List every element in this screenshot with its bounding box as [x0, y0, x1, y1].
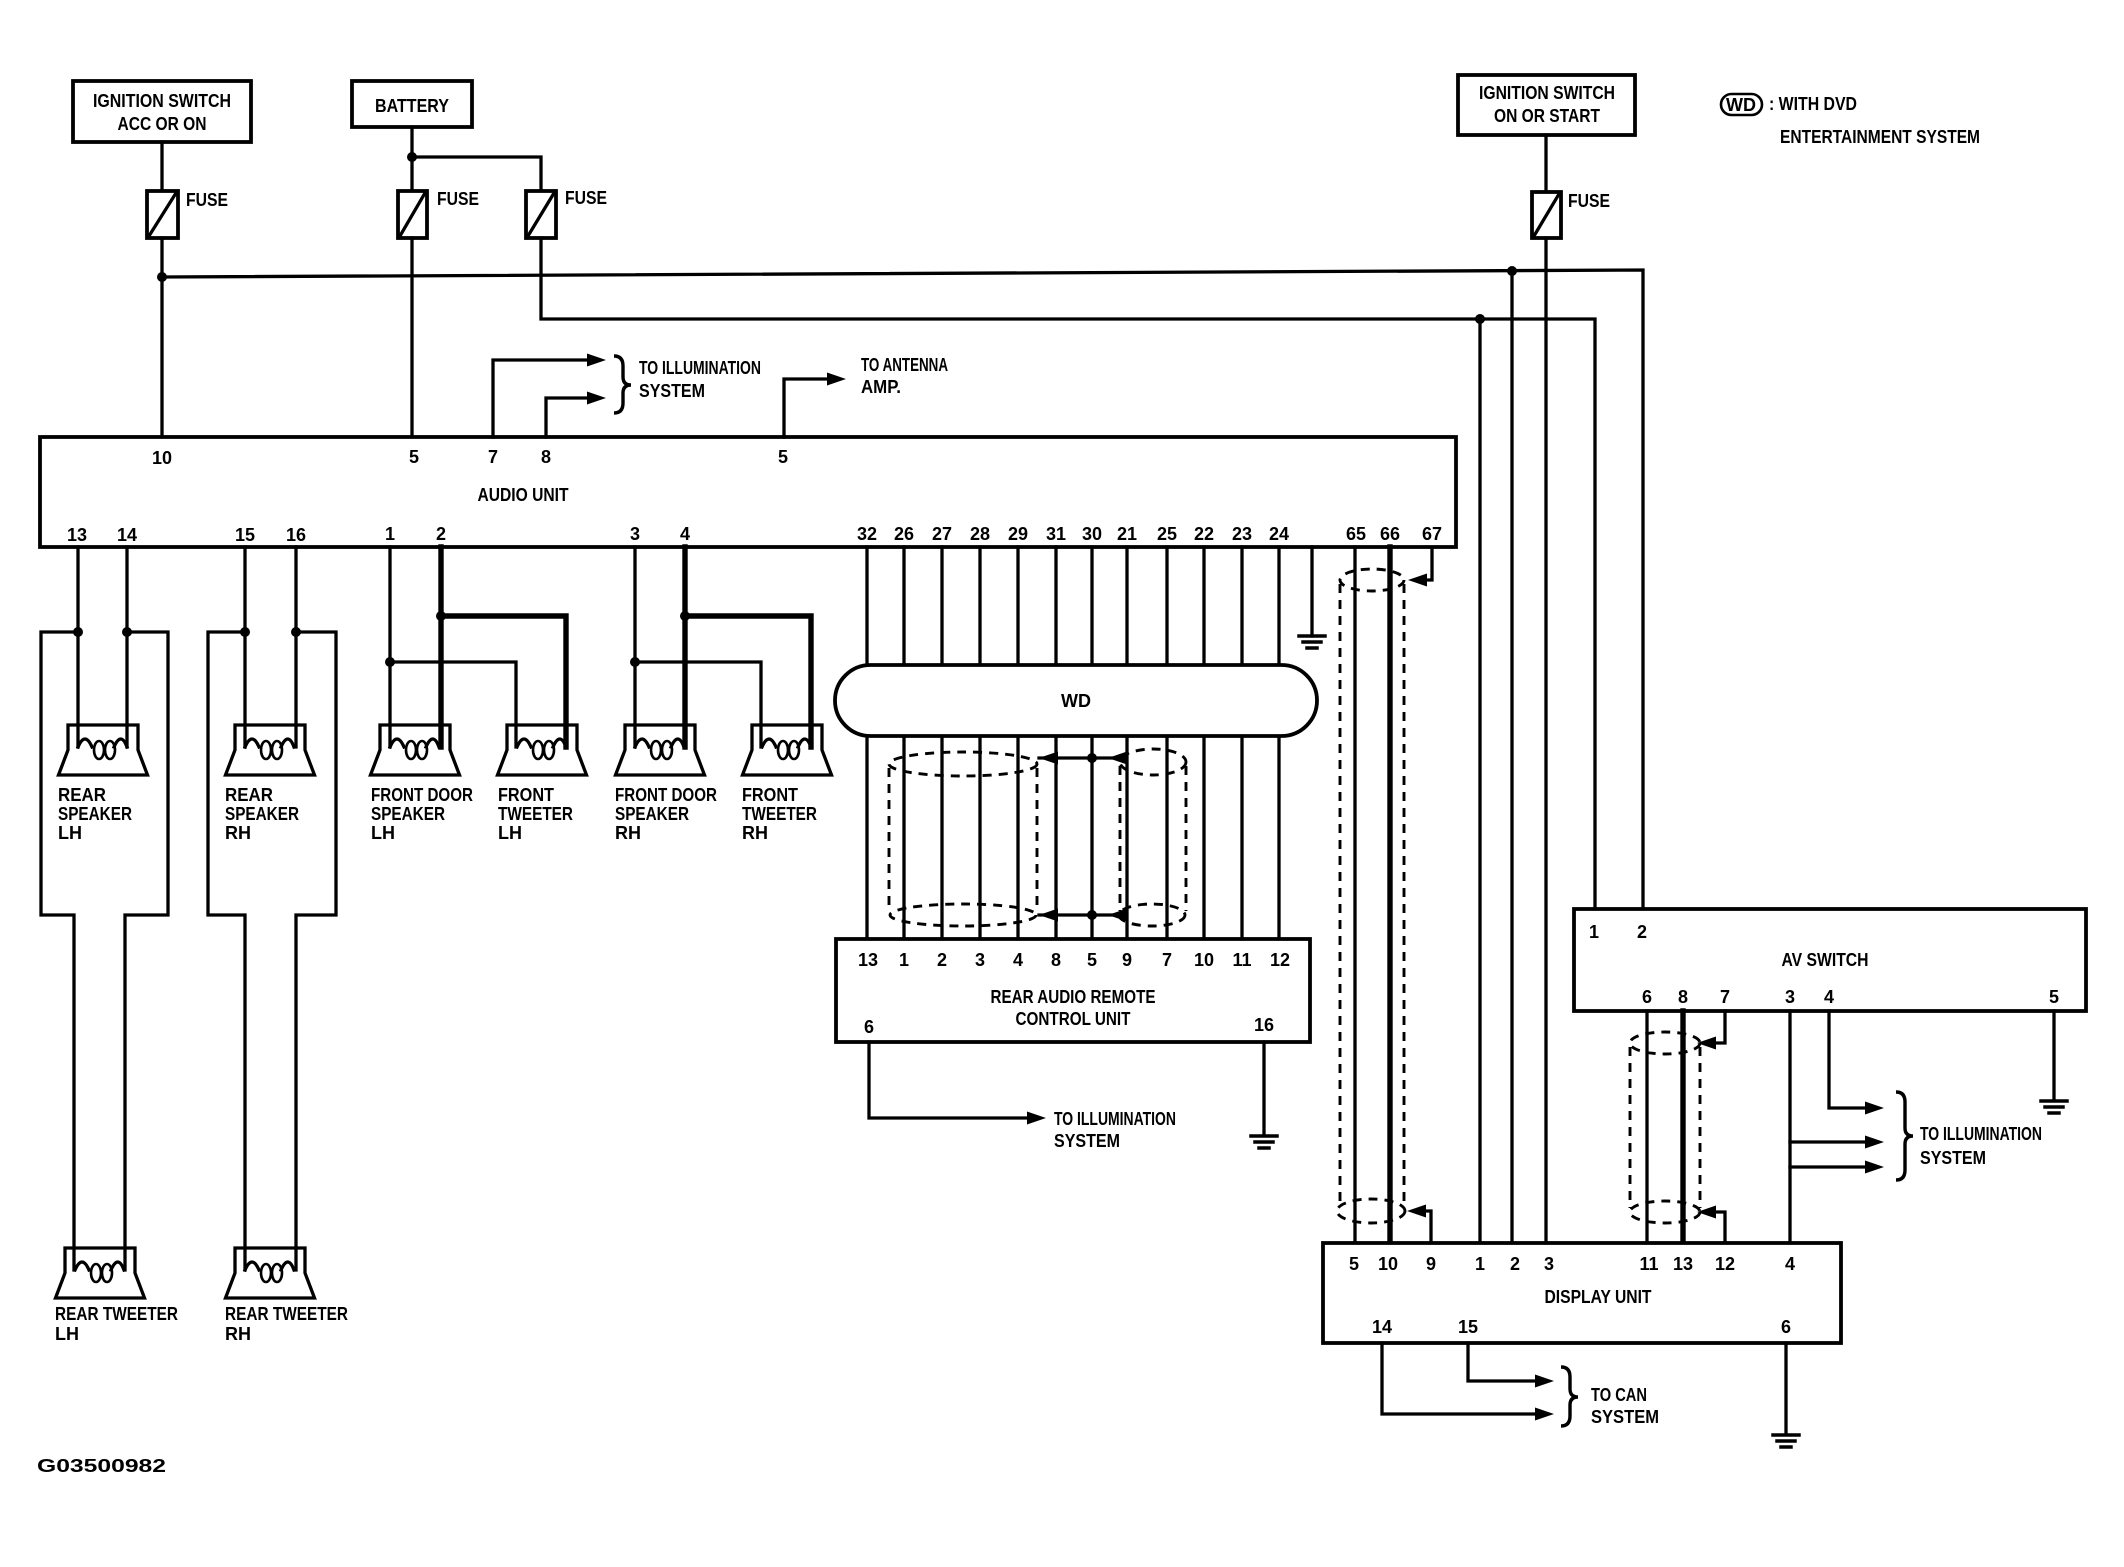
svg-text:5: 5 — [778, 447, 788, 467]
svg-text:FUSE: FUSE — [186, 190, 228, 210]
rear audio remote control unit box — [836, 939, 1310, 1042]
shield: AV cable top ellipse — [1630, 1032, 1700, 1054]
svg-text:3: 3 — [1785, 987, 1795, 1007]
pin labels: audio unit bottom right row — [857, 524, 1442, 544]
svg-text:14: 14 — [1372, 1317, 1392, 1337]
wire: audio pin 3 to front door speaker RH — [633, 547, 636, 747]
pin labels: audio unit top row — [152, 447, 788, 468]
svg-text:12: 12 — [1715, 1254, 1735, 1274]
svg-text:31: 31 — [1046, 524, 1066, 544]
node: ACC bus drop junction — [1507, 266, 1517, 276]
svg-text:AV SWITCH: AV SWITCH — [1782, 950, 1869, 970]
svg-text:4: 4 — [1013, 950, 1023, 970]
svg-text:13: 13 — [858, 950, 878, 970]
wire: audio pin 28 to remote pin 3 — [978, 547, 981, 939]
svg-text:SYSTEM: SYSTEM — [639, 381, 705, 401]
wire: fuse F2 to audio unit pin 5 — [410, 238, 413, 437]
svg-text:6: 6 — [1781, 1317, 1791, 1337]
svg-text:65: 65 — [1346, 524, 1366, 544]
arrow: drain to left shield (bottom) — [1039, 909, 1058, 922]
WD legend: WITH DVD ENTERTAINMENT SYSTEM — [1721, 94, 1980, 147]
svg-text:10: 10 — [152, 448, 172, 468]
fuse F3 — [526, 188, 607, 238]
pin labels: remote control unit bottom row — [864, 1015, 1274, 1037]
svg-text:29: 29 — [1008, 524, 1028, 544]
label: TO ILLUMINATION SYSTEM (top) — [639, 358, 761, 401]
label: REAR SPEAKER LH — [58, 785, 132, 843]
svg-text:4: 4 — [1824, 987, 1834, 1007]
svg-text:8: 8 — [1678, 987, 1688, 1007]
wire: audio pin 32 to remote pin 13 — [865, 547, 868, 939]
arrow: display pin 9 drain to shield — [1407, 1205, 1426, 1218]
shield: right cable side walls — [1340, 584, 1404, 1207]
svg-text:LH: LH — [498, 823, 522, 843]
svg-text:FRONT DOOR: FRONT DOOR — [615, 785, 717, 805]
svg-text:2: 2 — [436, 524, 446, 544]
node: drain top junction — [1087, 753, 1097, 763]
svg-text:CONTROL UNIT: CONTROL UNIT — [1016, 1009, 1131, 1029]
shield: middle cable (pins 21,25) top ellipse — [1120, 749, 1186, 775]
label: REAR SPEAKER RH — [225, 785, 299, 843]
wire: branch to rear tweeter LH (-) — [125, 632, 168, 1270]
node: pin 14 branch — [122, 627, 132, 637]
WD option oval — [835, 665, 1317, 736]
AV switch box — [1574, 909, 2086, 1011]
svg-text:32: 32 — [857, 524, 877, 544]
svg-text:TO ANTENNA: TO ANTENNA — [861, 355, 948, 375]
svg-text:REAR TWEETER: REAR TWEETER — [55, 1304, 178, 1324]
shield: middle cable bottom ellipse — [1119, 904, 1185, 926]
speaker: REAR SPEAKER LH — [59, 725, 148, 775]
ground: remote control unit — [1251, 1136, 1277, 1148]
wire: display pin 6 to ground — [1784, 1343, 1787, 1434]
svg-text:10: 10 — [1378, 1254, 1398, 1274]
wire: display pin 15 to CAN system — [1468, 1343, 1538, 1381]
arrow: AV illumination bottom — [1865, 1161, 1884, 1174]
shield: left cable (pins 32-31) top ellipse — [889, 752, 1037, 776]
svg-text:12: 12 — [1270, 950, 1290, 970]
wire: audio pin 13 to rear speaker LH — [76, 547, 79, 747]
pin labels: remote control unit top row — [858, 950, 1290, 970]
svg-text:11: 11 — [1232, 950, 1251, 970]
wire: fuse F1 to audio unit pin 10 — [160, 238, 163, 437]
svg-text:SPEAKER: SPEAKER — [615, 804, 689, 824]
battery box — [352, 81, 472, 127]
fuse F1 — [147, 190, 228, 238]
svg-text:SPEAKER: SPEAKER — [371, 804, 445, 824]
wire: audio pin 5 to antenna amp — [784, 379, 830, 437]
svg-text:3: 3 — [1544, 1254, 1554, 1274]
svg-text:FRONT DOOR: FRONT DOOR — [371, 785, 473, 805]
wire: branch to front tweeter RH (+) — [635, 662, 761, 747]
svg-text:AMP.: AMP. — [861, 377, 901, 397]
wire: display pin 12 to AV shield drain — [1713, 1212, 1725, 1243]
svg-text:SPEAKER: SPEAKER — [58, 804, 132, 824]
svg-text:REAR: REAR — [225, 785, 273, 805]
wire: remote pin 16 to ground — [1262, 1042, 1265, 1135]
svg-text:REAR TWEETER: REAR TWEETER — [225, 1304, 348, 1324]
svg-text:TO ILLUMINATION: TO ILLUMINATION — [639, 358, 761, 378]
svg-text:28: 28 — [970, 524, 990, 544]
wire: AV pin 3 tee to illumination (middle) — [1790, 1140, 1868, 1143]
label: TO ILLUMINATION SYSTEM (AV) — [1920, 1124, 2042, 1168]
svg-text:RH: RH — [225, 823, 251, 843]
label: FRONT TWEETER RH — [742, 785, 817, 843]
arrow: drain to middle shield (bottom) — [1108, 909, 1127, 922]
svg-text:ACC OR ON: ACC OR ON — [118, 114, 207, 134]
svg-text:DISPLAY UNIT: DISPLAY UNIT — [1545, 1287, 1652, 1307]
wire: battery to fuse F2 — [410, 127, 413, 191]
pin labels: AV switch bottom row — [1642, 987, 2059, 1007]
wire: AV pin 6 to display pin 11 — [1645, 1011, 1648, 1243]
brace: to CAN system — [1561, 1367, 1578, 1426]
svg-text:REAR AUDIO REMOTE: REAR AUDIO REMOTE — [991, 987, 1156, 1007]
arrow: display pin 12 drain to shield — [1697, 1206, 1716, 1219]
svg-text:4: 4 — [1785, 1254, 1795, 1274]
wire: branch to front tweeter LH (-) thick — [441, 616, 566, 747]
svg-text:TWEETER: TWEETER — [498, 804, 573, 824]
svg-text:REAR: REAR — [58, 785, 106, 805]
wire: ignition ON/START to fuse F4 — [1544, 135, 1547, 192]
wire: ACC bus drop to display unit pin 2 — [1510, 271, 1513, 1243]
svg-text:21: 21 — [1117, 524, 1137, 544]
svg-text:2: 2 — [1637, 922, 1647, 942]
svg-text:3: 3 — [975, 950, 985, 970]
svg-text:: WITH DVD: : WITH DVD — [1769, 94, 1857, 114]
shield: middle cable side walls — [1120, 766, 1186, 911]
svg-text:7: 7 — [488, 447, 498, 467]
node: battery junction — [407, 152, 417, 162]
arrow: CAN bottom — [1535, 1408, 1554, 1421]
shield: AV cable bottom ellipse — [1630, 1201, 1700, 1223]
audio unit box — [40, 437, 1456, 547]
wire: battery branch to fuse F3 — [412, 157, 541, 191]
label: TO ANTENNA AMP. — [861, 355, 948, 397]
svg-text:LH: LH — [58, 823, 82, 843]
svg-text:1: 1 — [899, 950, 909, 970]
svg-text:WD: WD — [1726, 95, 1756, 115]
svg-text:22: 22 — [1194, 524, 1214, 544]
svg-text:8: 8 — [541, 447, 551, 467]
node: pin 13 branch — [73, 627, 83, 637]
arrow: CAN top — [1535, 1375, 1554, 1388]
svg-text:1: 1 — [1475, 1254, 1485, 1274]
arrow: AV illumination top — [1865, 1102, 1884, 1115]
svg-text:SYSTEM: SYSTEM — [1591, 1407, 1659, 1427]
svg-text:13: 13 — [67, 525, 87, 545]
pin labels: display unit top row — [1349, 1254, 1795, 1274]
wire: audio pin 67 to right shield drain — [1424, 548, 1432, 580]
svg-text:IGNITION SWITCH: IGNITION SWITCH — [1479, 83, 1615, 103]
node: ACC bus junction — [157, 272, 167, 282]
ground: display unit — [1773, 1435, 1799, 1447]
wire: audio pin 1 to front door speaker LH — [388, 547, 391, 747]
label: REAR TWEETER LH — [55, 1304, 178, 1344]
label: REAR TWEETER RH — [225, 1304, 348, 1344]
arrow: remote illumination — [1027, 1112, 1046, 1125]
wire: ACC bus to AV switch pin 2 — [162, 270, 1643, 909]
svg-text:2: 2 — [937, 950, 947, 970]
wire: audio pin 26 to remote pin 1 — [902, 547, 905, 939]
svg-text:ENTERTAINMENT SYSTEM: ENTERTAINMENT SYSTEM — [1780, 127, 1980, 147]
wire: AV pin 8 to display pin 13 (thick) — [1680, 1011, 1685, 1243]
arrow: drain to middle shield (top) — [1108, 752, 1127, 765]
svg-text:1: 1 — [385, 524, 395, 544]
node: pin 15 branch — [240, 627, 250, 637]
svg-text:66: 66 — [1380, 524, 1400, 544]
pin labels: display unit bottom row — [1372, 1317, 1791, 1337]
speaker: FRONT DOOR SPEAKER LH — [371, 725, 460, 775]
wire: fuse F4 to display unit pin 3 — [1544, 238, 1547, 1243]
wire: audio pin 23 to remote pin 11 — [1240, 547, 1243, 939]
arrow: drain to left shield (top) — [1039, 752, 1058, 765]
arrow: AV illumination middle — [1865, 1136, 1884, 1149]
speaker: FRONT TWEETER RH — [743, 725, 832, 775]
wire: display pin 14 to CAN system — [1382, 1343, 1538, 1414]
node: drain bottom junction — [1087, 910, 1097, 920]
node: pin 3 branch — [630, 657, 640, 667]
brace: to illumination system (AV) — [1896, 1092, 1913, 1180]
svg-text:9: 9 — [1426, 1254, 1436, 1274]
svg-text:FRONT: FRONT — [498, 785, 554, 805]
speaker: FRONT DOOR SPEAKER RH — [616, 725, 705, 775]
wire: ACC switch to fuse F1 — [160, 142, 163, 191]
wire: audio pin 14 to rear speaker LH — [125, 547, 128, 747]
svg-text:26: 26 — [894, 524, 914, 544]
wire: branch to rear tweeter LH (+) — [41, 632, 78, 1270]
svg-text:25: 25 — [1157, 524, 1177, 544]
svg-text:30: 30 — [1082, 524, 1102, 544]
speaker: REAR SPEAKER RH — [226, 725, 315, 775]
svg-text:23: 23 — [1232, 524, 1252, 544]
wire: audio unit case ground — [1310, 547, 1313, 636]
svg-text:TO CAN: TO CAN — [1591, 1385, 1647, 1405]
svg-text:5: 5 — [2049, 987, 2059, 1007]
wire: audio pin 66 to display pin 10 (thick) — [1387, 547, 1392, 1243]
wire: audio pin 4 to front door speaker RH (thick) — [682, 547, 687, 747]
svg-text:WD: WD — [1061, 691, 1091, 711]
wire: audio pin 25 to remote pin 7 — [1165, 547, 1168, 939]
wire: audio pin 29 to remote pin 4 — [1016, 547, 1019, 939]
wire: +B bus from fuse F3 to AV switch pin 1 — [541, 238, 1595, 909]
svg-text:8: 8 — [1051, 950, 1061, 970]
svg-text:7: 7 — [1162, 950, 1172, 970]
node: pin 1 branch — [385, 657, 395, 667]
label: TO ILLUMINATION SYSTEM (remote) — [1054, 1109, 1176, 1151]
svg-text:LH: LH — [55, 1324, 79, 1344]
wire: audio pin 65 to display pin 5 — [1353, 547, 1356, 1243]
svg-text:ON OR START: ON OR START — [1494, 106, 1600, 126]
speaker: REAR TWEETER RH — [226, 1248, 315, 1298]
wire: branch to rear tweeter RH (-) — [296, 632, 336, 1270]
wire: audio pin 8 to illumination system — [546, 398, 590, 437]
wire: AV pin 3 to display pin 4 — [1788, 1011, 1791, 1243]
svg-text:16: 16 — [286, 525, 306, 545]
svg-text:FUSE: FUSE — [565, 188, 607, 208]
svg-text:RH: RH — [742, 823, 768, 843]
svg-text:LH: LH — [371, 823, 395, 843]
wire: AV pin 7 to AV shield drain — [1713, 1011, 1725, 1043]
svg-text:11: 11 — [1639, 1254, 1658, 1274]
svg-text:7: 7 — [1720, 987, 1730, 1007]
svg-text:TO ILLUMINATION: TO ILLUMINATION — [1920, 1124, 2042, 1144]
svg-text:3: 3 — [630, 524, 640, 544]
svg-text:BATTERY: BATTERY — [375, 96, 449, 116]
svg-text:27: 27 — [932, 524, 952, 544]
svg-text:TO ILLUMINATION: TO ILLUMINATION — [1054, 1109, 1176, 1129]
svg-text:TWEETER: TWEETER — [742, 804, 817, 824]
ground: audio unit — [1299, 636, 1325, 648]
svg-text:SYSTEM: SYSTEM — [1054, 1131, 1120, 1151]
svg-text:15: 15 — [1458, 1317, 1478, 1337]
wire: shield drain top link — [1039, 756, 1119, 759]
node: pin 2 branch — [436, 611, 446, 621]
wire: +B bus drop to display unit pin 1 — [1478, 319, 1481, 1243]
shield: left cable bottom ellipse — [890, 904, 1036, 926]
svg-text:9: 9 — [1122, 950, 1132, 970]
wire: audio pin 21 to remote pin 9 — [1125, 547, 1128, 939]
wire: audio pin 16 to rear speaker RH — [294, 547, 297, 747]
svg-text:SYSTEM: SYSTEM — [1920, 1148, 1986, 1168]
shield: left cable side walls — [889, 768, 1037, 911]
wire: audio pin 15 to rear speaker RH — [243, 547, 246, 747]
wire: branch to front tweeter RH (-) thick — [685, 616, 811, 747]
svg-text:RH: RH — [615, 823, 641, 843]
arrow: to antenna amp — [827, 373, 846, 386]
svg-text:14: 14 — [117, 525, 137, 545]
arrow: AV pin 7 drain to shield — [1697, 1037, 1716, 1050]
shield: AV cable side walls — [1630, 1047, 1700, 1208]
svg-text:2: 2 — [1510, 1254, 1520, 1274]
svg-text:FUSE: FUSE — [1568, 191, 1610, 211]
wire: audio pin 22 to remote pin 10 — [1202, 547, 1205, 939]
ignition switch ON OR START box — [1458, 75, 1635, 135]
fuse F4 — [1532, 191, 1610, 238]
wire: display pin 4 tee to illumination (bottom) — [1790, 1165, 1868, 1168]
svg-text:FRONT: FRONT — [742, 785, 798, 805]
label: FRONT TWEETER LH — [498, 785, 573, 843]
shield: right cable (pins 65,66) top ellipse — [1340, 569, 1404, 591]
node: pin 4 branch — [680, 611, 690, 621]
fuse F2 — [398, 189, 479, 238]
wire: audio pin 31 to remote pin 8 — [1054, 547, 1057, 939]
label: TO CAN SYSTEM — [1591, 1385, 1659, 1427]
svg-text:67: 67 — [1422, 524, 1442, 544]
svg-text:15: 15 — [235, 525, 255, 545]
wire: remote pin 6 to illumination system — [869, 1042, 1030, 1118]
pin labels: audio unit bottom left row — [67, 524, 690, 545]
svg-text:6: 6 — [1642, 987, 1652, 1007]
svg-text:RH: RH — [225, 1324, 251, 1344]
wire: branch to rear tweeter RH (+) — [208, 632, 245, 1270]
wire: audio pin 2 to front door speaker LH (thick) — [438, 547, 443, 747]
shield: right cable bottom ellipse — [1337, 1199, 1405, 1223]
wire: AV pin 5 to ground — [2052, 1011, 2055, 1100]
wire: audio pin 30 to remote pin 5 (shield drain) — [1090, 547, 1093, 939]
wire: audio pin 27 to remote pin 2 — [940, 547, 943, 939]
node: pin 16 branch — [291, 627, 301, 637]
node: +B bus drop junction — [1475, 314, 1485, 324]
svg-text:G03500982: G03500982 — [37, 1456, 166, 1476]
svg-text:10: 10 — [1194, 950, 1214, 970]
wire: AV pin 4 to illumination (top) — [1829, 1011, 1868, 1108]
svg-text:IGNITION SWITCH: IGNITION SWITCH — [93, 91, 231, 111]
svg-text:AUDIO UNIT: AUDIO UNIT — [478, 485, 569, 505]
svg-text:5: 5 — [1349, 1254, 1359, 1274]
svg-text:1: 1 — [1589, 922, 1599, 942]
wire: shield drain bottom link — [1039, 913, 1117, 916]
arrow: illumination top — [587, 354, 606, 367]
svg-text:24: 24 — [1269, 524, 1289, 544]
wire: audio pin 7 to illumination system — [493, 360, 590, 437]
wire: display pin 9 to right shield drain — [1423, 1211, 1431, 1243]
svg-text:13: 13 — [1673, 1254, 1693, 1274]
pin labels: AV switch top row — [1589, 922, 1647, 942]
speaker: FRONT TWEETER LH — [498, 725, 587, 775]
label: FRONT DOOR SPEAKER LH — [371, 785, 473, 843]
svg-text:16: 16 — [1254, 1015, 1274, 1035]
ignition switch ACC OR ON box — [73, 81, 251, 142]
wire: audio pin 24 to remote pin 12 — [1277, 547, 1280, 939]
svg-text:FUSE: FUSE — [437, 189, 479, 209]
speaker: REAR TWEETER LH — [56, 1248, 145, 1298]
svg-text:SPEAKER: SPEAKER — [225, 804, 299, 824]
arrow: illumination bottom — [587, 392, 606, 405]
display unit box — [1323, 1243, 1841, 1343]
svg-text:6: 6 — [864, 1017, 874, 1037]
arrow: pin 67 drain to shield — [1408, 574, 1427, 587]
wire: branch to front tweeter LH (+) — [390, 662, 516, 747]
ground: AV switch — [2041, 1101, 2067, 1113]
svg-text:4: 4 — [680, 524, 690, 544]
svg-text:5: 5 — [1087, 950, 1097, 970]
brace: to illumination system (top) — [614, 356, 631, 413]
label: FRONT DOOR SPEAKER RH — [615, 785, 717, 843]
svg-text:5: 5 — [409, 447, 419, 467]
